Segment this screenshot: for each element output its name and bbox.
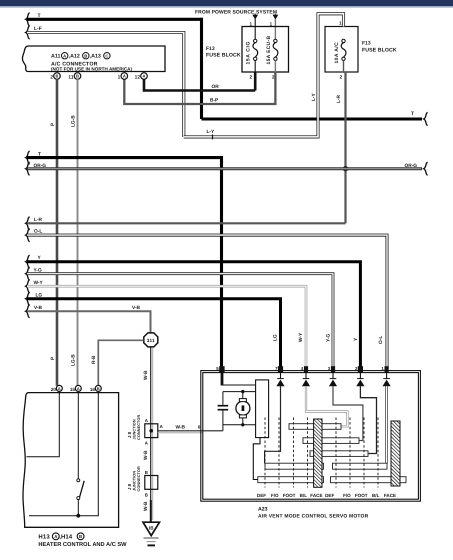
heater control box — [23, 393, 119, 528]
svg-text:FOOT: FOOT — [355, 493, 368, 498]
wire Y bus — [26, 255, 361, 372]
junction connector J8 B — [127, 466, 158, 497]
svg-text:1: 1 — [381, 366, 384, 371]
svg-text:A11: A11 — [51, 54, 60, 60]
jog LG to bar D1 — [265, 386, 281, 463]
wire L-R vertical — [336, 72, 346, 223]
svg-text:R-B: R-B — [91, 355, 97, 364]
svg-text:1: 1 — [118, 74, 121, 80]
svg-text:4: 4 — [301, 366, 304, 371]
svg-text:A: A — [63, 53, 66, 58]
svg-text:L-F: L-F — [34, 26, 42, 32]
svg-text:A23: A23 — [258, 507, 268, 513]
jog Y-G to bar B — [333, 386, 363, 440]
svg-text:A: A — [143, 74, 146, 79]
svg-text:W-Y: W-Y — [298, 332, 304, 342]
svg-text:2: 2 — [340, 75, 343, 80]
svg-text:OR-G: OR-G — [405, 163, 418, 169]
svg-text:10A A/C: 10A A/C — [334, 42, 340, 64]
wire W-B down — [143, 347, 153, 521]
contact bar E1 — [258, 477, 324, 483]
wire OR — [144, 72, 255, 91]
svg-text:A: A — [145, 441, 149, 446]
contact bar A — [289, 424, 341, 430]
power feed arrow 1 — [252, 14, 258, 41]
svg-text:15A ECU-B: 15A ECU-B — [266, 36, 272, 65]
heater caption H13 H14 — [38, 533, 127, 548]
header bar — [0, 0, 453, 8]
wiper contact left hatched — [314, 419, 322, 487]
svg-text:Y: Y — [38, 255, 42, 261]
svg-text:FUSE BLOCK: FUSE BLOCK — [362, 47, 397, 53]
svg-text:A: A — [123, 74, 126, 79]
svg-text:L-Y: L-Y — [207, 129, 216, 135]
contact bar D2 — [333, 463, 388, 469]
label F13 FUSE BLOCK left — [206, 46, 241, 59]
svg-text:A: A — [145, 418, 149, 423]
svg-text:JUNCTION: JUNCTION — [133, 471, 137, 491]
svg-text:F/O: F/O — [343, 493, 351, 498]
jog O-L to bar D2 — [385, 386, 388, 463]
A/C connector box A11 A12 A13 — [22, 46, 165, 72]
svg-text:B/L: B/L — [300, 493, 308, 498]
pin 2B — [50, 73, 60, 81]
wire T bus right — [202, 111, 428, 126]
svg-text:Y-G: Y-G — [325, 333, 331, 342]
svg-text:LG-B: LG-B — [70, 115, 76, 127]
position dashed lines — [265, 418, 378, 488]
servo pin 3 (Y-G) — [328, 366, 335, 373]
contact bar D1 — [265, 463, 324, 469]
svg-text:FACE: FACE — [310, 493, 322, 498]
diode pin 3 — [329, 373, 337, 387]
svg-text:A: A — [77, 386, 80, 391]
wire T top bus — [26, 13, 202, 26]
svg-text:CONNECTOR: CONNECTOR — [137, 466, 141, 491]
svg-text:B: B — [145, 492, 148, 497]
svg-text:HEATER CONTROL AND A/C SW: HEATER CONTROL AND A/C SW — [38, 541, 127, 548]
contact bar C — [310, 451, 368, 457]
svg-text:20: 20 — [51, 387, 57, 392]
fuse ECU-B 15A — [266, 21, 278, 79]
svg-text:IB: IB — [149, 526, 154, 531]
svg-text:311: 311 — [147, 338, 155, 343]
svg-text:T: T — [411, 111, 414, 117]
svg-text:FUSE BLOCK: FUSE BLOCK — [206, 53, 241, 59]
svg-text:5: 5 — [216, 366, 219, 371]
ground IB — [143, 500, 160, 545]
svg-text:V-B: V-B — [34, 305, 43, 311]
svg-text:CONNECTOR: CONNECTOR — [137, 415, 141, 440]
servo pin 1 (O-L) — [381, 366, 388, 373]
wire LG-B — [70, 79, 77, 386]
svg-text:W-B: W-B — [176, 424, 186, 430]
servo pin 2 (Y) — [355, 366, 363, 373]
wire L-Y — [184, 14, 344, 140]
svg-text:DEF: DEF — [325, 493, 334, 498]
servo motor top rail — [223, 390, 256, 393]
svg-text:11: 11 — [68, 74, 73, 80]
svg-text:L-R: L-R — [336, 94, 342, 103]
servo box A23 — [201, 371, 421, 502]
svg-text:L-Y: L-Y — [311, 92, 317, 101]
heater internal bottom wire to 16B — [29, 391, 98, 515]
wire LG bus — [26, 292, 281, 372]
pin 12A — [135, 73, 148, 81]
svg-text:(NOT FOR USE IN NORTH AMERICA): (NOT FOR USE IN NORTH AMERICA) — [51, 66, 133, 71]
svg-text:H13: H13 — [38, 533, 50, 540]
label F13 FUSE BLOCK right — [362, 41, 397, 54]
heater internal wire from 20A — [27, 391, 60, 456]
heater pin 20A — [51, 385, 62, 392]
svg-text:W-B: W-B — [143, 501, 149, 511]
servo motor bottom rail — [223, 423, 256, 426]
svg-text:15A CIG: 15A CIG — [246, 41, 252, 64]
wire L-F — [26, 26, 184, 137]
title FROM POWER SOURCE SYSTEM — [195, 9, 277, 15]
heater pin 15A — [70, 385, 81, 392]
svg-text:LG-B: LG-B — [70, 354, 76, 366]
svg-text:1: 1 — [249, 21, 252, 26]
svg-text:B: B — [56, 74, 59, 79]
svg-text:W-B: W-B — [143, 370, 149, 380]
splice 111 — [144, 333, 158, 347]
svg-text:,H14: ,H14 — [59, 533, 72, 540]
svg-text:A: A — [160, 424, 164, 429]
driver plate rectangle — [256, 380, 269, 438]
servo pin 4 (W-Y) — [301, 366, 308, 373]
servo pin 7 (LG) — [275, 366, 283, 373]
svg-text:2: 2 — [50, 74, 53, 80]
motor M — [236, 392, 250, 425]
svg-text:L-R: L-R — [34, 217, 43, 223]
heater pin 16B — [90, 385, 101, 392]
svg-text:J 8: J 8 — [127, 431, 132, 438]
servo caption — [258, 507, 369, 520]
svg-text:16: 16 — [90, 387, 96, 392]
wire W-Y bus — [26, 280, 306, 372]
fuse block F13 right box — [325, 27, 358, 73]
svg-text:C: C — [105, 53, 108, 58]
svg-text:2: 2 — [249, 75, 252, 80]
svg-text:FOOT: FOOT — [283, 493, 296, 498]
svg-text:FACE: FACE — [384, 493, 396, 498]
wire B-P — [124, 72, 275, 104]
wire OR-G — [26, 162, 428, 175]
svg-text:F13: F13 — [206, 46, 215, 52]
wire V-B bus — [26, 305, 151, 334]
svg-text:B: B — [97, 386, 100, 391]
jog Y to bar C — [360, 386, 376, 453]
svg-text:,A13: ,A13 — [90, 54, 101, 60]
svg-text:B: B — [76, 74, 79, 79]
svg-text:1: 1 — [270, 21, 273, 26]
svg-text:B-P: B-P — [210, 98, 219, 104]
heater internal wire from 15A to switch — [77, 391, 79, 478]
svg-text:B: B — [145, 470, 148, 475]
svg-text:12: 12 — [135, 74, 141, 80]
svg-text:FROM POWER SOURCE SYSTEM: FROM POWER SOURCE SYSTEM — [195, 9, 277, 15]
capacitor C — [218, 392, 229, 431]
contact bar B — [303, 438, 359, 444]
svg-text:W-B: W-B — [143, 450, 149, 460]
svg-text:F13: F13 — [362, 41, 371, 47]
wire L-R bus — [26, 217, 346, 230]
svg-text:OR: OR — [212, 84, 220, 90]
wire T vertical left — [200, 18, 203, 119]
svg-text:3: 3 — [328, 366, 331, 371]
fuse block F13 left box — [242, 27, 289, 73]
svg-text:7: 7 — [275, 366, 278, 371]
svg-text:DEF: DEF — [257, 493, 266, 498]
fuse CIG 15A — [246, 21, 258, 79]
svg-text:AIR VENT MODE CONTROL SERVO MO: AIR VENT MODE CONTROL SERVO MOTOR — [258, 513, 369, 519]
svg-text:LG: LG — [272, 334, 278, 341]
svg-text:Y: Y — [353, 337, 359, 341]
pin 1A — [118, 73, 128, 81]
svg-text:,A12: ,A12 — [69, 54, 80, 60]
wire W-B to servo — [158, 424, 223, 433]
wire T main bus — [26, 151, 222, 164]
jog W-Y to bar A — [306, 386, 347, 426]
svg-text:B: B — [84, 53, 87, 58]
power feed arrow 2 — [273, 14, 279, 41]
svg-text:A: A — [54, 534, 58, 539]
diode pin 7 — [276, 373, 284, 387]
svg-text:A: A — [58, 386, 61, 391]
wire T vertical to servo — [220, 156, 223, 372]
wire P — [50, 79, 57, 386]
servo pin 5 (T) — [216, 366, 224, 373]
contact bar E2 — [331, 477, 407, 483]
pin 11B — [68, 73, 80, 81]
svg-text:B: B — [79, 534, 82, 539]
diode pin 4 — [302, 373, 310, 387]
svg-text:F/O: F/O — [271, 493, 279, 498]
svg-text:P: P — [50, 356, 56, 360]
diode pin 1 — [383, 373, 391, 387]
svg-text:15: 15 — [70, 387, 76, 392]
wire Y-G bus — [26, 267, 333, 372]
junction dot L-R OR-G — [343, 166, 348, 171]
wire R-B — [91, 340, 144, 385]
fuse A-C 10A — [334, 20, 346, 79]
wire O-L bus — [26, 229, 387, 373]
A/C switch — [77, 479, 84, 516]
position labels — [257, 493, 396, 498]
wiper contact right hatched — [391, 421, 400, 486]
svg-text:1: 1 — [339, 20, 342, 25]
jog from driver plate to bar E1 — [253, 438, 260, 480]
diode pin 2 — [356, 373, 364, 387]
svg-text:V-B: V-B — [132, 305, 141, 311]
junction connector J8 A — [127, 415, 164, 446]
svg-text:O-L: O-L — [378, 336, 384, 344]
svg-text:JUNCTION: JUNCTION — [133, 419, 137, 439]
svg-text:P: P — [50, 122, 56, 126]
svg-text:J 8: J 8 — [127, 483, 132, 490]
heater internal junction dot — [76, 514, 80, 518]
svg-text:B/L: B/L — [372, 493, 380, 498]
servo internal T feed — [222, 373, 256, 386]
svg-text:2: 2 — [355, 366, 358, 371]
